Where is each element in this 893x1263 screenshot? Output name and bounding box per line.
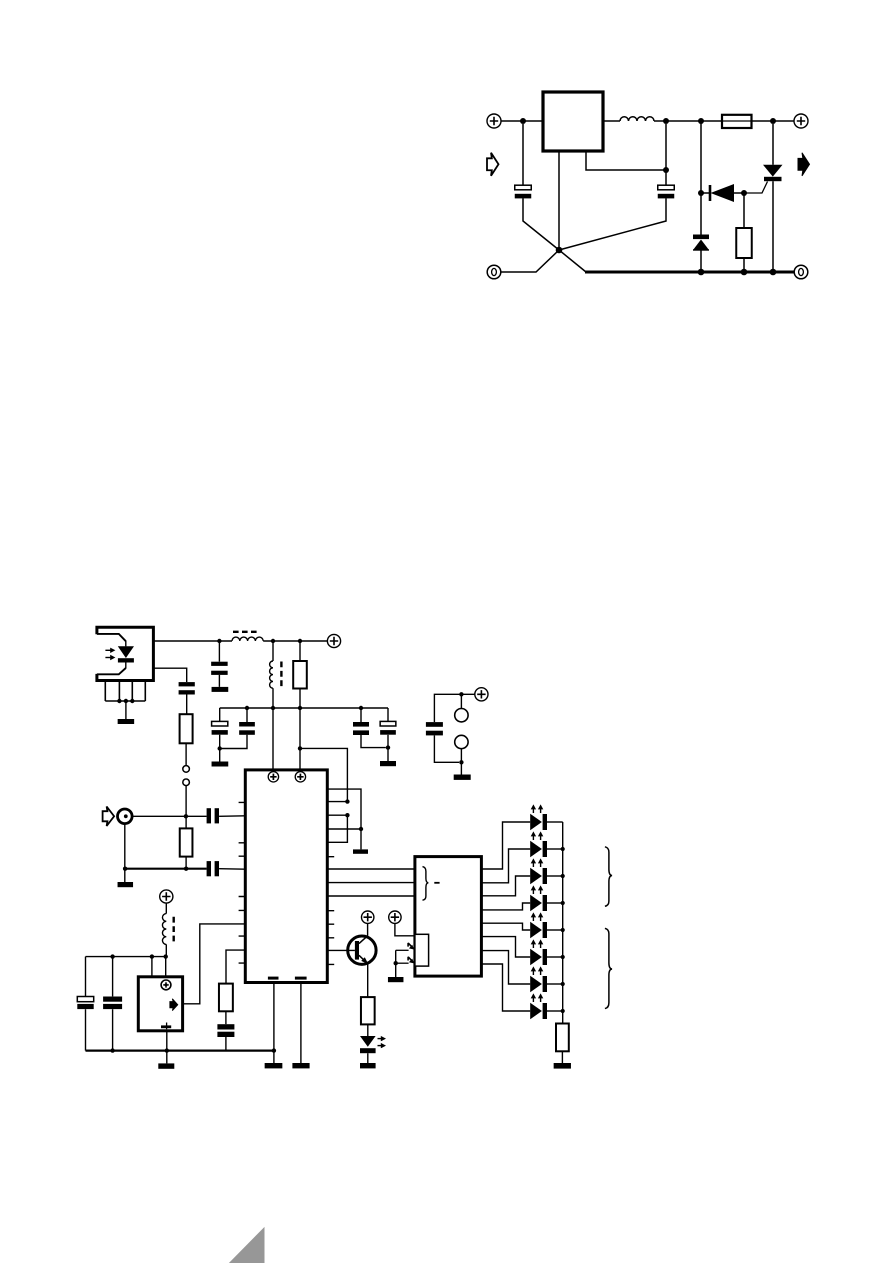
- input flow arrow: [103, 807, 115, 827]
- wire: [460, 694, 462, 708]
- wire C3 to ground: [219, 749, 221, 762]
- terminal + LED supply: [362, 911, 374, 923]
- junction: [663, 167, 669, 173]
- junction: [271, 639, 275, 643]
- wire: [387, 735, 389, 748]
- ground: [212, 762, 229, 767]
- input jack X1: [118, 809, 133, 824]
- wire C10 to star point: [523, 198, 559, 250]
- wire: [246, 708, 248, 722]
- wire node to D10: [703, 192, 710, 194]
- LED D5: [530, 868, 547, 885]
- supply rail wire: [263, 640, 327, 642]
- ferrite bead dashes L2: [280, 662, 282, 689]
- wire: [112, 957, 114, 997]
- junction: [218, 746, 222, 750]
- junction: [123, 867, 127, 871]
- wire LED to bus: [547, 956, 563, 958]
- wire IC1 pin to bypass net: [327, 789, 361, 849]
- wire regulator feedback: [586, 151, 666, 170]
- indicator LED D2: [360, 1036, 376, 1053]
- resistor R6: [556, 1024, 569, 1052]
- return rail wire: [125, 868, 207, 870]
- photo diode arrow into U2: [408, 957, 414, 964]
- junction: [359, 827, 363, 831]
- wire: [395, 950, 397, 963]
- junction: [271, 706, 275, 710]
- module rail wire: [86, 956, 166, 958]
- wire gate of thyristor: [744, 182, 768, 194]
- ground: [118, 882, 134, 887]
- LED light arrow: [540, 996, 542, 1002]
- input flow arrow: [487, 153, 499, 176]
- terminal + supply: [327, 634, 340, 647]
- wire: [434, 694, 474, 722]
- wire star point to rail: [559, 250, 586, 272]
- junction: [741, 190, 747, 196]
- LED D3: [530, 814, 547, 831]
- wire: [396, 949, 409, 951]
- LED light arrow: [540, 807, 542, 813]
- wire R5 to LED: [367, 1024, 369, 1036]
- mid rail wire: [220, 707, 388, 709]
- wire to C10: [522, 124, 524, 185]
- ground: [388, 977, 404, 982]
- wire to module +: [165, 957, 167, 980]
- wire L2 down: [272, 688, 274, 708]
- ground: [118, 719, 134, 724]
- junction: [359, 706, 363, 710]
- resistor R1: [180, 714, 193, 743]
- inductor L10: [620, 117, 654, 121]
- wire: [395, 963, 397, 977]
- junction: [298, 746, 302, 750]
- junction: [698, 118, 704, 124]
- wire U2 pin to LED D4: [482, 849, 531, 883]
- bus wire: [327, 882, 414, 884]
- LED D6: [530, 895, 547, 912]
- wire to C11: [665, 124, 667, 185]
- junction: [150, 954, 154, 958]
- capacitor C10: [515, 185, 532, 190]
- LED light arrow: [540, 942, 542, 948]
- photodiode D1 inside module: [118, 641, 134, 669]
- junction: [561, 847, 565, 851]
- junction: [110, 1048, 114, 1052]
- LED light arrow: [540, 861, 542, 867]
- wire U2 pin to LED D6: [482, 903, 531, 910]
- terminal + aux: [475, 688, 488, 701]
- wire fuse to output: [752, 120, 794, 122]
- junction: [217, 639, 221, 643]
- LED light arrow: [532, 861, 534, 867]
- wire anode of thyristor: [772, 124, 774, 165]
- junction: [165, 1048, 169, 1052]
- fuse F10: [722, 115, 752, 128]
- group brace: [605, 928, 612, 1008]
- capacitor C8: [207, 808, 211, 823]
- wire LED to bus: [547, 929, 563, 931]
- wire R10 to rail: [743, 258, 745, 272]
- junction: [298, 639, 302, 643]
- wire: [361, 735, 386, 748]
- wire: [165, 903, 167, 914]
- LED D8: [530, 949, 547, 966]
- link pin: [183, 779, 190, 786]
- LED light arrow: [378, 1038, 383, 1040]
- IC U1 right stub pins: [327, 857, 334, 965]
- junction: [561, 955, 565, 959]
- IC U1 left stub pins: [239, 802, 246, 963]
- ground: [265, 1063, 283, 1068]
- wire: [225, 1011, 227, 1024]
- LED D10: [530, 1003, 547, 1020]
- star ground junction: [556, 247, 563, 254]
- bottom rail wire: [86, 1049, 274, 1051]
- LED light arrow: [378, 1045, 383, 1047]
- wire cap to IC1: [219, 868, 245, 871]
- wire IC1 to base: [327, 949, 355, 951]
- junction: [272, 1048, 276, 1052]
- wire star point to 0 terminal: [501, 250, 559, 272]
- sub block inside U2: [415, 934, 429, 966]
- wire U2 pin to LED D10: [482, 964, 531, 1011]
- wire C4 to ground node: [220, 735, 247, 749]
- wire: [396, 962, 409, 964]
- capacitor C13: [103, 997, 122, 1002]
- inductor L3: [162, 914, 166, 945]
- wire to C1: [218, 641, 220, 662]
- wire: [85, 957, 87, 997]
- transistor Q1: [348, 936, 376, 965]
- wire LED to bus: [547, 848, 563, 850]
- module arrow mark: [170, 999, 178, 1011]
- ground: [158, 1063, 174, 1068]
- junction: [298, 706, 302, 710]
- wire link to signal node: [185, 786, 187, 817]
- wire to IC1 Vcc1: [272, 708, 274, 770]
- junction: [663, 118, 669, 124]
- LED light arrow: [532, 888, 534, 894]
- ground: [380, 761, 396, 766]
- capacitor C5: [353, 722, 369, 727]
- wire regulator to inductor: [603, 120, 620, 122]
- wire zener to rail: [700, 250, 702, 272]
- wire R6 to ground: [561, 1051, 563, 1063]
- photo interrupter module B1: [97, 627, 153, 680]
- wire LED to bus: [547, 1010, 563, 1012]
- IC U1 supply pin mark: [268, 772, 278, 782]
- wire to R10: [743, 193, 745, 228]
- minus mark inside U2: [434, 882, 439, 884]
- resistor R2: [293, 661, 307, 689]
- junction: [770, 118, 776, 124]
- wire LED to bus: [547, 983, 563, 985]
- wire to zener: [700, 121, 702, 235]
- inductor L1: [232, 637, 263, 641]
- wire jack sleeve to ground: [124, 824, 126, 882]
- junction: [110, 954, 114, 958]
- junction: [124, 699, 128, 703]
- wire: [460, 749, 462, 763]
- LED light arrow: [540, 969, 542, 975]
- wire: [387, 708, 389, 721]
- LED light arrow: [540, 915, 542, 921]
- resistor R5: [361, 997, 375, 1024]
- zener diode D11: [693, 235, 709, 251]
- wire IC1 gnd pin: [273, 983, 275, 1064]
- thyristor V10: [763, 165, 783, 181]
- connector pin: [455, 735, 468, 748]
- brace mark inside U2: [423, 867, 429, 901]
- wire C11 to star point: [559, 198, 666, 250]
- wire: [219, 735, 221, 749]
- capacitor C9: [207, 861, 211, 876]
- capacitor C2: [179, 682, 195, 686]
- wire C1 to ground: [218, 675, 220, 687]
- LED light arrow: [532, 942, 534, 948]
- module + mark: [161, 980, 171, 990]
- terminal + input: [487, 114, 501, 128]
- LED light arrow: [532, 834, 534, 840]
- IC U1 supply pin mark: [295, 772, 305, 782]
- wire LED to bus: [547, 875, 563, 877]
- light arrow: [105, 649, 112, 651]
- capacitor C12: [77, 997, 93, 1002]
- junction: [345, 799, 349, 803]
- regulator U10: [543, 92, 603, 151]
- wire cathode of thyristor: [772, 181, 774, 272]
- wire: [85, 1009, 87, 1050]
- wire U2 pin to LED D5: [482, 876, 531, 896]
- wire LED to ground: [367, 1053, 369, 1063]
- resistor R3: [180, 828, 193, 856]
- wire R1 to link: [185, 743, 187, 765]
- IC U1 ground pin marks: [268, 977, 279, 980]
- output flow arrow: [798, 153, 810, 176]
- wire input to regulator: [501, 120, 543, 122]
- junction: [184, 814, 188, 818]
- LED light arrow: [532, 969, 534, 975]
- wire IC1 to R4: [226, 950, 245, 984]
- wire: [299, 708, 301, 748]
- wire U2 pin to LED D9: [482, 951, 531, 984]
- wire regulator sense to star point: [558, 151, 560, 250]
- junction: [770, 269, 777, 276]
- wire C2 to R1: [186, 695, 188, 715]
- LED light arrow: [540, 888, 542, 894]
- junction: [459, 692, 463, 696]
- junction: [394, 961, 398, 965]
- terminal + module supply: [160, 890, 173, 903]
- ground: [292, 1063, 309, 1068]
- junction: [698, 269, 705, 276]
- group brace: [605, 847, 612, 907]
- wire: [434, 736, 459, 763]
- wire jack to coupling cap: [132, 815, 206, 817]
- LED light arrow: [540, 834, 542, 840]
- wire to IC2: [395, 923, 415, 935]
- wire: [327, 828, 361, 830]
- junction: [164, 954, 168, 958]
- wire: [185, 816, 187, 828]
- wire to module: [151, 957, 153, 978]
- diode D10: [710, 184, 734, 202]
- junction: [130, 699, 134, 703]
- junction: [561, 874, 565, 878]
- wire: [219, 708, 221, 721]
- wire: [327, 815, 347, 842]
- wire LED to bus: [547, 821, 563, 823]
- wire: [360, 708, 362, 722]
- LED light arrow: [532, 807, 534, 813]
- terminal 0 output: [794, 265, 808, 279]
- wire module gnd: [166, 1030, 168, 1051]
- bus wire: [327, 868, 414, 870]
- connector pin: [455, 709, 468, 722]
- module minus mark: [166, 1023, 168, 1030]
- wire inductor to fuse: [654, 120, 721, 122]
- photo diode arrow into U2: [408, 943, 414, 950]
- junction: [561, 1009, 565, 1013]
- wire IC1 gnd pin: [300, 983, 302, 1064]
- wire cap to IC1: [219, 815, 245, 818]
- terminal + sensor: [389, 911, 401, 923]
- junction: [117, 699, 121, 703]
- LED light arrow: [532, 996, 534, 1002]
- junction: [741, 269, 748, 276]
- ground: [454, 775, 471, 780]
- capacitor C3: [212, 721, 228, 726]
- IC U2: [415, 857, 482, 977]
- wire: [166, 1051, 168, 1064]
- capacitor C7: [426, 722, 443, 727]
- wire U2 pin to LED D7: [482, 923, 531, 930]
- wire: [327, 801, 347, 803]
- light arrow: [105, 657, 112, 659]
- LED return bus wire: [562, 822, 564, 1024]
- wire U2 pin to LED D8: [482, 937, 531, 957]
- terminal 0 input: [487, 265, 501, 279]
- ground: [212, 687, 229, 692]
- wire D10 to gate node: [734, 192, 744, 194]
- bottom rail: [585, 271, 794, 274]
- wire to ground: [387, 748, 389, 761]
- inductor L2: [270, 661, 273, 688]
- resistor R10: [736, 228, 752, 258]
- LED D4: [530, 841, 547, 858]
- bus wire: [327, 895, 414, 897]
- junction: [561, 982, 565, 986]
- junction: [698, 190, 704, 196]
- wire module to ground: [125, 701, 127, 719]
- wire: [225, 1037, 227, 1051]
- LED D7: [530, 922, 547, 939]
- capacitor C11: [658, 185, 675, 190]
- junction: [561, 901, 565, 905]
- junction: [184, 867, 188, 871]
- IC U1: [245, 770, 327, 983]
- wire: [272, 641, 274, 661]
- ground: [360, 1063, 376, 1068]
- wire L3 down: [165, 944, 167, 956]
- junction: [561, 928, 565, 932]
- wire module to supply rail: [153, 640, 232, 642]
- wire emitter to R5: [367, 964, 369, 997]
- LED light arrow: [532, 915, 534, 921]
- wire module to IC1: [183, 924, 246, 1004]
- wire: [460, 762, 462, 774]
- wire LED to bus: [547, 902, 563, 904]
- LED D9: [530, 976, 547, 993]
- module pins: [105, 682, 145, 701]
- junction: [345, 813, 349, 817]
- wire to IC1 Vcc2: [299, 748, 301, 770]
- wire: [112, 1009, 114, 1050]
- ferrite bead dashes L1: [233, 631, 260, 633]
- sub module B2: [138, 977, 182, 1031]
- resistor R4: [219, 984, 233, 1012]
- ferrite bead dashes L3: [172, 917, 174, 944]
- junction: [245, 706, 249, 710]
- link pin: [183, 766, 190, 773]
- terminal + output: [794, 114, 808, 128]
- wire: [327, 814, 347, 816]
- wire collector: [367, 923, 369, 935]
- wire: [299, 641, 301, 661]
- wire R2 down: [299, 689, 301, 709]
- wire: [185, 857, 187, 869]
- ground: [353, 849, 368, 853]
- capacitor C1: [211, 662, 228, 666]
- junction: [520, 118, 526, 124]
- capacitor C14: [217, 1024, 234, 1029]
- capacitor C4: [239, 722, 255, 727]
- wire module out: [153, 668, 186, 682]
- junction: [459, 760, 463, 764]
- page corner triangle: [229, 1227, 265, 1263]
- junction: [386, 745, 390, 749]
- wire U2 pin to LED D3: [482, 822, 531, 869]
- wire to IC1 right pins: [300, 748, 347, 801]
- capacitor C6: [380, 721, 396, 726]
- ground: [554, 1063, 571, 1069]
